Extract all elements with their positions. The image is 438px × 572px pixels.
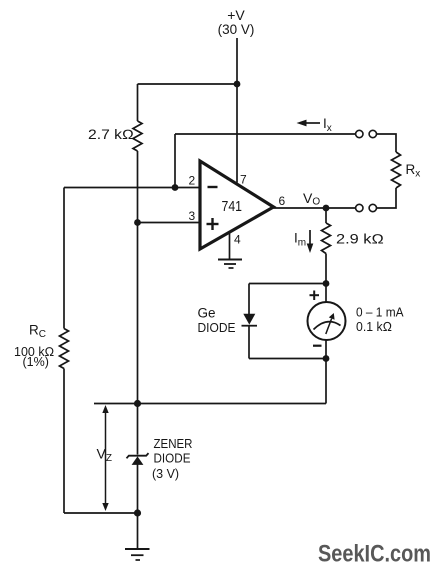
wire RC bottom link (64, 512, 138, 514)
svg-text:RC: RC (29, 323, 46, 341)
svg-text:7: 7 (240, 173, 247, 187)
svg-text:2: 2 (189, 174, 196, 188)
op-amp U1 741 triangle (200, 161, 274, 249)
wire feedback vertical (174, 134, 176, 188)
op-amp inverting input marking (208, 186, 218, 188)
meter M1 body (308, 302, 346, 340)
terminal circle bottom-left (356, 204, 363, 211)
wire left rail lower (63, 369, 65, 514)
wire Ix feedback line (175, 133, 355, 135)
wire diode branch top (249, 283, 326, 285)
resistor Rx (392, 152, 401, 188)
svg-text:Rx: Rx (406, 162, 421, 180)
svg-text:2.7 kΩ: 2.7 kΩ (88, 127, 134, 142)
wire left rail upper (63, 188, 65, 329)
wire meter node down to Vz line (325, 359, 327, 404)
terminal circle bottom-right (369, 204, 376, 211)
svg-text:0 – 1 mA: 0 – 1 mA (356, 305, 404, 320)
wire output to 2.9k (325, 208, 327, 223)
svg-text:6: 6 (279, 194, 286, 208)
svg-text:VO: VO (303, 190, 320, 208)
wire +V node to 2.7k top (138, 83, 238, 85)
wire ground stem (137, 513, 139, 549)
svg-text:(1%): (1%) (23, 355, 49, 369)
wire Rx bottom link (377, 188, 396, 208)
resistor 2.9 kOhm (322, 223, 331, 254)
svg-text:SeekIC.com: SeekIC.com (318, 541, 431, 568)
resistor RC (60, 329, 69, 369)
node meter bottom junction (323, 355, 330, 362)
node +V junction (234, 81, 241, 88)
resistor 2.7 kOhm (133, 121, 142, 151)
svg-text:+V: +V (227, 7, 245, 23)
ground main (125, 549, 150, 560)
label meter minus (313, 345, 322, 347)
terminal circle top-right (369, 130, 376, 137)
wire Vz reference horizontal (94, 403, 326, 405)
terminal circle top-left (356, 130, 363, 137)
wire pin 4 lead (229, 233, 231, 260)
wire diode branch bottom (249, 358, 326, 360)
svg-text:Ge: Ge (198, 306, 216, 321)
svg-text:VZ: VZ (97, 446, 112, 465)
wire meter bottom lead (325, 340, 327, 359)
wire output pin 6 (274, 207, 356, 209)
wire 2.9k to meter node (325, 254, 327, 284)
svg-text:DIODE: DIODE (154, 452, 191, 466)
node output junction (323, 205, 330, 212)
node zener top junction (134, 400, 141, 407)
wire zener lower lead (137, 465, 139, 514)
svg-text:(30 V): (30 V) (218, 22, 255, 37)
svg-text:4: 4 (234, 233, 241, 247)
wire meter top lead (325, 284, 327, 303)
arrow Ix current (297, 120, 321, 127)
wire zener upper lead (137, 404, 139, 455)
node meter top junction (323, 280, 330, 287)
wire diode branch left lower (248, 326, 250, 359)
wire +V rail to pin 7 (236, 38, 238, 183)
meter needle (326, 313, 335, 334)
node feedback junction (172, 184, 179, 191)
arrow Im current (307, 230, 314, 253)
label meter plus (310, 291, 320, 301)
svg-text:ZENER: ZENER (154, 437, 193, 451)
wire to pin 2 (64, 187, 200, 189)
+V supply label (218, 7, 255, 37)
node pin-3 junction (134, 219, 141, 226)
meter scale arc (314, 322, 341, 330)
arrow Vz dimension (102, 405, 108, 511)
node ground junction (134, 509, 141, 516)
wire diode branch left upper (248, 284, 250, 315)
svg-text:DIODE: DIODE (198, 321, 236, 335)
ground op-amp pin 4 (218, 260, 242, 269)
wire to pin 3 (138, 222, 201, 224)
svg-text:0.1 kΩ: 0.1 kΩ (356, 319, 392, 334)
op-amp non-inverting input marking (207, 218, 219, 230)
svg-text:(3 V): (3 V) (152, 467, 179, 481)
wire central rail upper lead (137, 84, 139, 121)
svg-text:Im: Im (294, 231, 306, 249)
svg-text:2.9 kΩ: 2.9 kΩ (336, 232, 384, 247)
svg-text:741: 741 (222, 198, 243, 215)
wire Rx top link (377, 134, 396, 152)
svg-text:3: 3 (189, 209, 196, 223)
svg-text:Ix: Ix (323, 116, 332, 134)
diode zener D2 (127, 453, 149, 465)
diode Ge D1 (242, 314, 258, 326)
wire central rail middle (137, 151, 139, 404)
